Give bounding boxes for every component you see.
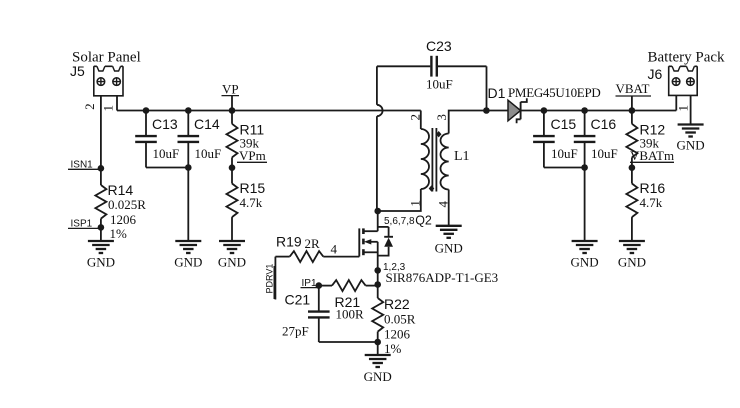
value 10uF (C14) bbox=[195, 146, 222, 161]
value 2R (R19) bbox=[305, 236, 321, 251]
svg-text:3: 3 bbox=[434, 114, 449, 121]
capacitor C23 bbox=[377, 56, 487, 77]
svg-text:C13: C13 bbox=[152, 116, 178, 132]
svg-text:C21: C21 bbox=[285, 292, 311, 308]
label R11 bbox=[240, 122, 265, 138]
ground GND (R16) bbox=[618, 241, 646, 270]
wire VP rail (main horizontal) bbox=[117, 110, 421, 112]
net label ISP1 bbox=[68, 219, 101, 230]
svg-text:1206: 1206 bbox=[384, 327, 411, 342]
connector J5 (Solar Panel) bbox=[94, 66, 123, 96]
label L1 bbox=[454, 149, 470, 164]
label R21 bbox=[335, 294, 361, 310]
svg-text:VPm: VPm bbox=[239, 148, 266, 163]
svg-text:R14: R14 bbox=[108, 182, 134, 198]
wire VP stub bbox=[231, 96, 233, 111]
junction VPm bbox=[229, 164, 236, 171]
capacitor C16 bbox=[574, 111, 596, 242]
resistor R14 bbox=[95, 185, 106, 219]
L1 pin number 3 bbox=[434, 114, 449, 121]
svg-text:27pF: 27pF bbox=[282, 324, 309, 339]
junction C15 top bbox=[541, 107, 548, 114]
wire L1 pin1 to Q2 drain bbox=[378, 189, 421, 211]
wire L1 pin3 to D1 anode bbox=[449, 111, 487, 134]
label C21 bbox=[285, 292, 311, 308]
label C15 bbox=[551, 116, 577, 132]
value 1% bbox=[110, 226, 128, 241]
value 27pF (C21) bbox=[282, 324, 309, 339]
inductor L1 secondary winding (pins 3-4) bbox=[441, 134, 449, 190]
wire C23 right down to D1 anode bbox=[486, 66, 488, 110]
value 39k (R11) bbox=[240, 136, 260, 151]
svg-text:4.7k: 4.7k bbox=[640, 195, 663, 210]
ground GND (L1 pin4) bbox=[435, 226, 463, 256]
svg-text:C16: C16 bbox=[591, 116, 617, 132]
resistor R12 bbox=[626, 111, 637, 184]
value 1206 bbox=[110, 212, 137, 227]
label C23 bbox=[426, 38, 452, 54]
ground GND (J5 branch) bbox=[87, 241, 115, 270]
label J6 bbox=[648, 66, 663, 82]
label C16 bbox=[591, 116, 617, 132]
value 4.7k (R15) bbox=[240, 195, 263, 210]
svg-text:PMEG45U10EPD: PMEG45U10EPD bbox=[508, 85, 600, 100]
Q2 gate pin number 4 bbox=[331, 242, 338, 257]
capacitor C14 bbox=[178, 111, 200, 242]
svg-text:R15: R15 bbox=[240, 180, 266, 196]
svg-text:0.025R: 0.025R bbox=[108, 197, 146, 212]
value 1206 (R22) bbox=[384, 327, 411, 342]
svg-text:GND: GND bbox=[364, 369, 392, 384]
wire J6 pin2 to GND bbox=[690, 95, 692, 124]
transistor Q2 (N-MOSFET SIR876ADP) bbox=[359, 211, 393, 270]
svg-text:L1: L1 bbox=[454, 149, 470, 164]
svg-text:GND: GND bbox=[435, 241, 463, 256]
value 10uF (C23) bbox=[426, 77, 453, 92]
svg-text:5,6,7,8: 5,6,7,8 bbox=[384, 216, 415, 227]
label R16 bbox=[640, 180, 666, 196]
L1 pin number 4 bbox=[436, 201, 451, 208]
label R15 bbox=[240, 180, 266, 196]
svg-text:1: 1 bbox=[675, 105, 690, 112]
value 4.7k (R16) bbox=[640, 195, 663, 210]
J5 pin number 2 bbox=[82, 103, 97, 110]
Q2 pin numbers 1,2,3 bbox=[383, 262, 406, 273]
svg-text:GND: GND bbox=[571, 255, 599, 270]
wire source to R22 bbox=[377, 270, 379, 298]
wire J6 pin1 bbox=[675, 95, 677, 110]
junction node ISN1 bbox=[98, 165, 105, 172]
junction R21/R22 node bbox=[374, 281, 381, 288]
ground GND (C14) bbox=[174, 241, 202, 270]
svg-text:1: 1 bbox=[101, 105, 116, 112]
junction Q2 source node bbox=[374, 267, 381, 274]
svg-text:VBATm: VBATm bbox=[630, 148, 674, 163]
wire PDRV1 stub bbox=[274, 257, 276, 300]
junction VBAT rail bbox=[629, 107, 636, 114]
resistor R11 bbox=[227, 111, 238, 184]
svg-text:10uF: 10uF bbox=[551, 146, 578, 161]
svg-text:VBAT: VBAT bbox=[616, 81, 650, 96]
svg-text:Q2: Q2 bbox=[415, 214, 432, 228]
junction R22 bottom bbox=[374, 339, 381, 346]
svg-text:10uF: 10uF bbox=[153, 146, 180, 161]
wire L1 pin4 to GND bbox=[448, 190, 450, 226]
svg-text:2R: 2R bbox=[305, 236, 321, 251]
wire C23 left down to Q2 drain, hops over rail bbox=[377, 66, 383, 211]
L1 polarity dot (pin 1 side) bbox=[429, 185, 435, 191]
net label VPm bbox=[237, 148, 267, 163]
junction C16 bottom bbox=[581, 164, 588, 171]
value 0.05R (R22) bbox=[384, 312, 416, 327]
ground GND (C16) bbox=[571, 241, 599, 270]
wire VBAT stub bbox=[631, 96, 633, 111]
svg-text:100R: 100R bbox=[336, 307, 365, 322]
resistor R22 bbox=[372, 298, 383, 355]
net label VBAT bbox=[616, 81, 652, 96]
wire C15 bottom to C16 bbox=[544, 167, 585, 169]
svg-text:R16: R16 bbox=[640, 180, 666, 196]
svg-text:10uF: 10uF bbox=[426, 77, 453, 92]
svg-text:VP: VP bbox=[222, 82, 239, 97]
svg-text:J5: J5 bbox=[70, 63, 85, 79]
net label ISN1 bbox=[68, 160, 101, 171]
resistor R21 bbox=[319, 280, 378, 291]
svg-text:SIR876ADP-T1-GE3: SIR876ADP-T1-GE3 bbox=[386, 270, 499, 285]
svg-text:J6: J6 bbox=[648, 66, 663, 82]
L1 pin number 2 bbox=[407, 114, 422, 121]
net label VBATm bbox=[630, 148, 674, 163]
label Battery Pack bbox=[648, 50, 726, 66]
junction C16 top bbox=[581, 107, 588, 114]
svg-text:GND: GND bbox=[677, 138, 705, 153]
label Q2 bbox=[415, 214, 432, 228]
resistor R16 bbox=[626, 184, 637, 242]
ground GND (R22) bbox=[364, 355, 392, 384]
Q2 pin numbers 5,6,7,8 bbox=[384, 216, 415, 227]
value 0.025R bbox=[108, 197, 146, 212]
ground GND (R15) bbox=[218, 241, 246, 270]
svg-text:PDRV1: PDRV1 bbox=[264, 264, 274, 294]
svg-text:2: 2 bbox=[407, 114, 422, 121]
junction C14 bottom bbox=[185, 164, 192, 171]
svg-text:C15: C15 bbox=[551, 116, 577, 132]
value 39k (R12) bbox=[640, 136, 660, 151]
svg-text:GND: GND bbox=[174, 255, 202, 270]
junction D1 anode node bbox=[483, 107, 490, 114]
resistor R19 bbox=[275, 251, 359, 262]
label Solar Panel bbox=[72, 50, 141, 66]
capacitor C13 bbox=[135, 111, 157, 168]
wire C13 bottom to C14 bbox=[146, 167, 188, 169]
resistor R15 bbox=[227, 184, 238, 242]
svg-text:1206: 1206 bbox=[110, 212, 137, 227]
label C14 bbox=[194, 116, 220, 132]
junction node ISP1 bbox=[98, 224, 105, 231]
J6 pin number 1 bbox=[675, 105, 690, 112]
svg-text:4.7k: 4.7k bbox=[240, 195, 263, 210]
connector J6 (Battery Pack) bbox=[669, 66, 698, 95]
svg-text:R19: R19 bbox=[276, 234, 302, 250]
label R12 bbox=[640, 122, 666, 138]
capacitor C21 bbox=[308, 286, 330, 342]
capacitor C15 bbox=[533, 111, 555, 168]
junction C13 top bbox=[143, 107, 150, 114]
L1 polarity dot (pin 3 side) bbox=[436, 131, 442, 137]
junction VP rail bbox=[229, 107, 236, 114]
ground GND (J6) bbox=[677, 125, 705, 153]
junction VBATm bbox=[629, 164, 636, 171]
inductor L1 primary winding (pins 2-1) bbox=[421, 111, 429, 190]
svg-text:4: 4 bbox=[331, 242, 338, 257]
net label PDRV1 bbox=[264, 264, 274, 299]
svg-text:10uF: 10uF bbox=[591, 146, 618, 161]
svg-text:GND: GND bbox=[218, 255, 246, 270]
label J5 bbox=[70, 63, 85, 79]
value 1% (R22) bbox=[384, 341, 402, 356]
value 10uF (C15) bbox=[551, 146, 578, 161]
L1 core lines bbox=[432, 128, 436, 192]
svg-text:1%: 1% bbox=[110, 226, 128, 241]
net label IP1 bbox=[301, 278, 318, 289]
junction Q2 drain node bbox=[374, 208, 381, 215]
label R22 bbox=[384, 296, 410, 312]
svg-text:10uF: 10uF bbox=[195, 146, 222, 161]
wire C21 bottom to R22 bottom bbox=[319, 341, 378, 343]
wire J5 pin1 to VP rail bbox=[116, 96, 118, 111]
wire VBAT rail bbox=[544, 110, 676, 112]
L1 pin number 1 bbox=[408, 200, 423, 207]
svg-text:1%: 1% bbox=[384, 341, 402, 356]
label D1 bbox=[488, 85, 506, 101]
label R14 bbox=[108, 182, 134, 198]
wire J5 pin2 down to GND bbox=[100, 96, 102, 241]
svg-text:GND: GND bbox=[618, 255, 646, 270]
svg-text:GND: GND bbox=[87, 255, 115, 270]
value 100R (R21) bbox=[336, 307, 365, 322]
junction IP1 node bbox=[316, 282, 323, 289]
svg-text:Battery Pack: Battery Pack bbox=[648, 50, 726, 66]
diode D1 (schottky PMEG45U10EPD) bbox=[486, 98, 544, 123]
value 10uF (C16) bbox=[591, 146, 618, 161]
svg-text:R22: R22 bbox=[384, 296, 410, 312]
net label VP bbox=[222, 82, 240, 97]
svg-text:C14: C14 bbox=[194, 116, 220, 132]
svg-text:C23: C23 bbox=[426, 38, 452, 54]
junction C14 top bbox=[185, 107, 192, 114]
svg-text:2: 2 bbox=[82, 103, 97, 110]
svg-text:D1: D1 bbox=[488, 85, 506, 101]
part number SIR876ADP-T1-GE3 bbox=[386, 270, 499, 285]
svg-text:0.05R: 0.05R bbox=[384, 312, 416, 327]
label C13 bbox=[152, 116, 178, 132]
label R19 bbox=[276, 234, 302, 250]
J5 pin number 1 bbox=[101, 105, 116, 112]
part number PMEG45U10EPD bbox=[508, 85, 600, 100]
value 10uF (C13) bbox=[153, 146, 180, 161]
